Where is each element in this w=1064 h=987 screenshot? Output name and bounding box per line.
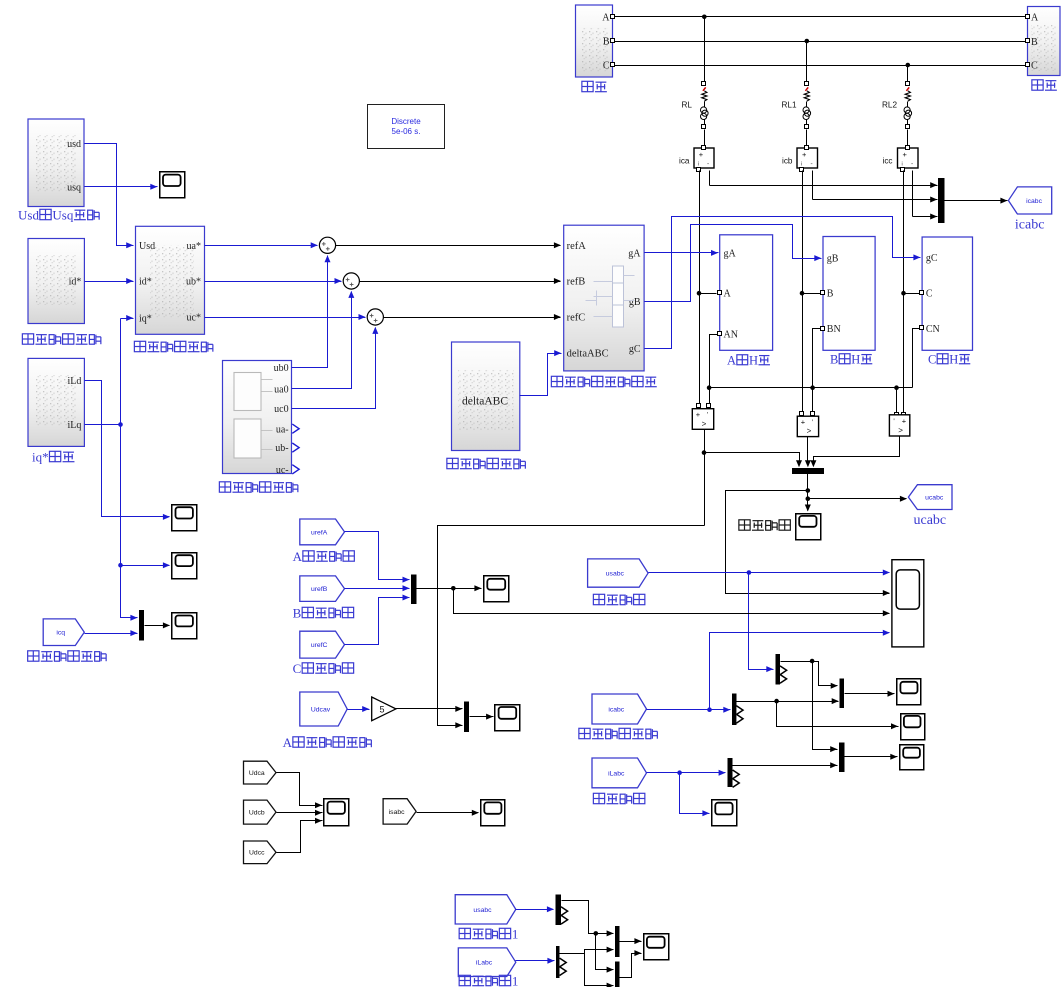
wire demuxB out (737, 698, 899, 729)
subsystem 相间电压控制 (223, 361, 292, 476)
label C相调制波 (293, 661, 354, 676)
svg-text:usabc: usabc (473, 907, 492, 914)
svg-text:H: H (949, 353, 958, 367)
wire Udcav to gain (348, 706, 370, 712)
svg-text:1: 1 (512, 974, 519, 987)
svg-text:BN: BN (827, 324, 841, 335)
sum block sum3 (367, 309, 383, 325)
subsystem 全局电压控制 (28, 239, 84, 324)
wire BN to N bus (813, 329, 821, 388)
subsystem 触发脉冲产生模块 (564, 225, 644, 371)
from tag urefA (300, 519, 345, 545)
current measurement icc (883, 146, 919, 172)
svg-text:B: B (1031, 37, 1038, 48)
port chevron uc- (292, 465, 299, 474)
from tag icabc2 (592, 694, 647, 724)
voltage measurement A (692, 409, 713, 430)
from tag urefC (300, 631, 345, 658)
wire icb- to B-phase column (800, 171, 821, 412)
svg-text:urefC: urefC (311, 642, 328, 649)
mux B (615, 962, 619, 987)
svg-text:-: - (811, 161, 813, 168)
mux ucabc (horizontal bar) (792, 468, 824, 474)
wire iLd to scope (85, 381, 170, 520)
svg-text:>: > (702, 419, 707, 428)
svg-text:refB: refB (567, 277, 586, 288)
wire CN to N bus (913, 329, 920, 388)
svg-text:deltaABC: deltaABC (462, 396, 508, 408)
goto tag ucabc (908, 485, 952, 510)
series RL branch RL (682, 17, 709, 146)
svg-text:iLabc: iLabc (476, 960, 493, 967)
wire gA to A-bridge (645, 250, 719, 256)
label Usd和Usq计算 (18, 208, 99, 223)
svg-text:B: B (293, 606, 302, 621)
wire urefB to mux (345, 585, 410, 591)
svg-text:Udcav: Udcav (311, 706, 331, 713)
from tag isabc (383, 799, 416, 824)
wire iLq trunk (85, 315, 170, 621)
svg-text:+: + (903, 150, 908, 159)
current measurement ica (679, 146, 714, 172)
wire muxB to scope10 (620, 950, 642, 977)
wire icc- to C-phase column (901, 171, 919, 413)
demux E (556, 946, 566, 978)
wire mux3 to scope3 (145, 622, 170, 628)
scope 2 (iLq) (172, 553, 197, 579)
svg-text:RL1: RL1 (782, 100, 797, 109)
series RL branch RL2 (882, 66, 912, 146)
svg-text:C: C (926, 289, 933, 300)
wire vmeasC out (810, 437, 899, 468)
svg-text:+: + (802, 150, 807, 159)
svg-text:ub*: ub* (186, 277, 201, 288)
svg-text:isabc: isabc (389, 809, 405, 816)
svg-text:Udcb: Udcb (249, 810, 265, 817)
scope 10 (644, 934, 669, 960)
svg-text:uc*: uc* (187, 313, 201, 324)
wire ica- to A-phase column (697, 171, 717, 404)
vmeas C port squares (895, 413, 906, 417)
scope 1 (iLd) (172, 505, 197, 531)
svg-text:icb: icb (782, 157, 793, 166)
svg-text:uc0: uc0 (274, 404, 288, 415)
svg-text:usabc: usabc (606, 570, 625, 577)
svg-text:A: A (283, 735, 293, 750)
svg-text:C: C (603, 61, 610, 72)
subsystem C相H桥 (920, 237, 973, 350)
scope 8 (712, 800, 737, 826)
demux D (555, 895, 567, 926)
wire usq to scope (85, 184, 158, 190)
svg-text:Usd: Usd (18, 208, 39, 223)
svg-text:Discrete: Discrete (391, 117, 421, 126)
vmeas A port squares (697, 404, 711, 408)
label 负载 (1032, 80, 1057, 90)
wire demuxE out (560, 947, 614, 987)
wire ub* to sum2 (205, 278, 342, 284)
label 相内电压控制 (447, 458, 525, 468)
wire icb signal to mux icabc (813, 171, 938, 203)
wire id* to decoupling (85, 278, 134, 284)
svg-text:5e-06 s.: 5e-06 s. (392, 127, 421, 136)
from tag Udcc (244, 841, 277, 864)
powergui block Discrete 5e-06 s. (368, 105, 445, 149)
sum block sum1 (319, 237, 335, 253)
subsystem 电网 (grid source) (576, 5, 615, 77)
label 触发脉冲产生模块 (551, 376, 656, 386)
svg-text:icabc: icabc (1015, 218, 1045, 233)
scope 7 (901, 714, 925, 740)
svg-text:icc: icc (883, 157, 893, 166)
wire mux uref to scope4 and big scope (417, 585, 890, 616)
svg-text:C: C (1031, 60, 1038, 71)
svg-text:Usd: Usd (139, 241, 155, 252)
wire urefC to mux (345, 595, 410, 645)
subsystem 电流解耦控制 (136, 226, 205, 334)
svg-text:id*: id* (139, 277, 152, 288)
wire sum3 to refC (384, 314, 561, 320)
label A相H桥 (727, 354, 770, 368)
wire mux down to scope 输出电压 (805, 474, 811, 512)
mux icabc (938, 178, 944, 223)
svg-text:CN: CN (926, 324, 940, 335)
svg-text:urefB: urefB (311, 586, 328, 593)
wire uc* to sum3 (205, 314, 366, 320)
wire uc0 to sum3 (292, 327, 379, 409)
svg-text:ub-: ub- (275, 443, 288, 454)
svg-text:iLd: iLd (68, 376, 82, 387)
wire vmeasB out (805, 437, 811, 468)
svg-text:>: > (807, 427, 812, 436)
svg-text:gB: gB (827, 254, 839, 265)
svg-text:': ' (812, 420, 813, 427)
scope 4 (484, 576, 509, 602)
svg-text:iq*: iq* (139, 314, 152, 325)
wire gain to mux5 (396, 706, 463, 712)
wire gB to B-bridge (645, 225, 822, 302)
from tag usabc (588, 559, 649, 587)
subsystem 负载 (load) (1026, 7, 1061, 76)
wire ua* to sum1 (205, 242, 318, 248)
wire icc signal to mux icabc (913, 171, 938, 220)
svg-text:H: H (851, 353, 860, 367)
svg-text:-: - (911, 161, 913, 168)
svg-text:-: - (707, 161, 709, 168)
scope 12 (isabc) (481, 800, 505, 826)
label 输出无功电流 (28, 651, 106, 661)
svg-text:ua0: ua0 (274, 384, 288, 395)
label 全局电压控制 (22, 334, 100, 344)
N bus (707, 385, 913, 390)
port chevron ub- (292, 443, 299, 452)
wire Udcb to scope11 (277, 810, 323, 816)
label B相H桥 (830, 353, 872, 367)
svg-text:ucabc: ucabc (914, 513, 947, 528)
from tag usabc2 (455, 895, 516, 924)
label 负载电流1 (459, 974, 518, 987)
wire mux to goto icabc (945, 198, 1008, 204)
mux 3 (139, 610, 144, 640)
svg-text:>: > (898, 426, 903, 435)
wire usabc to big scope (649, 570, 890, 673)
scope 输出电压 (796, 514, 821, 540)
scope 9 (900, 745, 924, 770)
wire mux5 to scope5 (470, 714, 494, 720)
wire demuxC out (733, 762, 838, 768)
label C相H桥 (928, 353, 970, 367)
scope 5 (495, 705, 520, 731)
svg-text:ucabc: ucabc (925, 495, 944, 502)
port chevron ua- (292, 424, 299, 433)
svg-text:refC: refC (567, 313, 586, 324)
svg-text:RL: RL (682, 100, 693, 109)
wire mux to scope9 (845, 754, 898, 760)
svg-text:': ' (893, 418, 894, 425)
svg-text:deltaABC: deltaABC (567, 349, 609, 360)
wire ica signal to mux icabc (710, 171, 938, 189)
svg-text:id*: id* (69, 277, 82, 288)
from tag Udca (244, 761, 277, 784)
sum block sum2 (343, 273, 359, 289)
demux C (iLabc) (728, 758, 740, 787)
svg-text:1: 1 (512, 927, 519, 942)
label iq*计算 (32, 450, 74, 465)
voltage measurement C (889, 415, 909, 436)
svg-text:B: B (830, 353, 838, 367)
wire phase C (615, 65, 1026, 67)
label 电网电压 (593, 594, 644, 604)
series RL branch RL1 (782, 42, 811, 146)
svg-text:icq: icq (56, 630, 65, 637)
svg-text:usd: usd (67, 139, 81, 150)
wire icq to mux3 (85, 630, 138, 636)
svg-text:B: B (827, 289, 834, 300)
mux T (615, 926, 619, 957)
wire sum1 to refA (336, 242, 561, 248)
current measurement icb (782, 146, 818, 172)
svg-text:A: A (1031, 13, 1039, 24)
wire demuxD out (562, 901, 614, 973)
label 相间电压控制 (219, 482, 297, 492)
svg-text:ica: ica (679, 157, 690, 166)
svg-text:iq*: iq* (32, 450, 49, 465)
svg-text:A: A (724, 289, 732, 300)
svg-text:gB: gB (629, 297, 641, 308)
gain 5 (triangle) (372, 697, 396, 721)
from tag Udcb (244, 800, 277, 824)
svg-text:5: 5 (380, 705, 385, 715)
wire N bus to vmeasC + (896, 388, 898, 413)
wire mux to scope6 (845, 691, 895, 697)
svg-text:icabc: icabc (1026, 198, 1042, 205)
svg-text:gA: gA (628, 248, 641, 259)
svg-text:ub0: ub0 (274, 363, 289, 374)
svg-text:iLabc: iLabc (608, 770, 625, 777)
label 输出补偿电流 (579, 728, 657, 738)
svg-text:gA: gA (724, 248, 737, 259)
wire iLabc to demux/scope (647, 770, 726, 817)
subsystem 相内电压控制 (452, 342, 520, 451)
svg-text:+: + (699, 150, 704, 159)
goto tag icabc (1008, 187, 1051, 214)
junction phase A / RL (702, 14, 707, 19)
svg-text:Usq: Usq (52, 208, 73, 223)
scope 6 (897, 679, 921, 705)
wire to goto ucabc (808, 496, 907, 502)
demux A (usabc) (775, 654, 786, 685)
svg-text:gC: gC (926, 253, 938, 264)
wire to big scope input2 (726, 491, 890, 597)
svg-text:AN: AN (724, 330, 738, 341)
wire usd to Usd input (85, 144, 134, 249)
from tag icq (43, 619, 84, 646)
svg-text:B: B (603, 37, 610, 48)
wire AN to N bus (710, 335, 718, 388)
svg-text:i: i (698, 162, 699, 168)
svg-text:Udca: Udca (249, 770, 265, 777)
wire muxT to scope10 (620, 938, 642, 944)
label 电流解耦控制 (134, 341, 212, 351)
from tag Udcav (300, 692, 347, 726)
wire urefA to mux (345, 532, 410, 583)
junction phase B / RL1 (805, 39, 810, 44)
subsystem iq*计算 (28, 358, 84, 446)
scope usd (160, 172, 185, 198)
label B相调制波 (293, 606, 354, 621)
svg-text:A: A (602, 13, 610, 24)
label 电网电压1 (459, 927, 518, 942)
wire isabc to scope12 (417, 810, 479, 816)
label 输出电压 (739, 520, 790, 530)
mux uref (411, 574, 416, 604)
svg-text:gC: gC (629, 344, 641, 355)
scope 11 (Udc) (324, 799, 349, 826)
label A相调制波 (293, 549, 355, 564)
scope big (4 inputs) (892, 560, 924, 647)
wire icabc to demux/scope (647, 630, 890, 713)
svg-text:C: C (928, 353, 936, 367)
from tag iLabc2 (458, 948, 516, 977)
svg-text:iLq: iLq (68, 420, 82, 431)
svg-text:+: + (902, 416, 907, 425)
wire iLabc2 to demuxE (516, 958, 555, 964)
wire phase B (615, 41, 1026, 43)
wire Udca to scope11 (277, 773, 323, 809)
from tag iLabc (592, 758, 647, 788)
subsystem B相H桥 (821, 237, 876, 351)
wire demuxA out (781, 659, 838, 752)
wire ub0 to sum1 (292, 255, 331, 367)
wire vmeasA out trunk (438, 430, 803, 729)
demux B (icabc) (732, 694, 743, 725)
wire usabc2 to demuxD (516, 906, 554, 912)
subsystem Usd和Usq计算 (28, 119, 84, 207)
svg-text:i: i (801, 162, 802, 168)
subsystem A相H桥 (718, 235, 773, 350)
svg-text:+: + (696, 410, 701, 419)
svg-text:C: C (293, 661, 302, 676)
wire phase A (615, 16, 1026, 18)
svg-text:Udcc: Udcc (249, 850, 265, 857)
wire N bus to vmeasA - (709, 388, 711, 404)
wire deltaABC to pulse module (520, 350, 562, 395)
svg-text:': ' (707, 412, 708, 419)
label ucabc (914, 513, 947, 528)
wire ua0 to sum2 (292, 291, 355, 389)
wire Udcc to scope11 (277, 818, 323, 853)
svg-text:usq: usq (67, 182, 81, 193)
mux upper right (840, 678, 844, 708)
svg-text:ua*: ua* (187, 241, 201, 252)
label A相直流侧电压 (283, 735, 372, 750)
vmeas B port squares (800, 412, 815, 416)
svg-text:refA: refA (567, 241, 587, 252)
wire gC to C-bridge (645, 217, 921, 349)
scope 3 (icq compare) (172, 613, 197, 639)
svg-text:urefA: urefA (311, 529, 328, 536)
wire N bus to vmeasB - (812, 388, 814, 412)
svg-text:RL2: RL2 (882, 100, 897, 109)
svg-text:+: + (801, 418, 806, 427)
label icabc (1015, 218, 1045, 233)
svg-text:i: i (902, 162, 903, 168)
junction phase C / RL2 (906, 63, 911, 68)
svg-text:ua-: ua- (276, 424, 289, 435)
mux 5 (464, 702, 469, 732)
voltage measurement B (797, 416, 818, 436)
svg-text:H: H (749, 354, 758, 368)
mux lower right (839, 742, 844, 772)
label 电网 (582, 81, 607, 91)
svg-text:A: A (293, 549, 303, 564)
svg-text:icabc: icabc (608, 706, 624, 713)
label 负载电流 (593, 793, 644, 803)
from tag urefB (300, 576, 345, 602)
svg-text:A: A (727, 354, 736, 368)
svg-text:uc-: uc- (276, 465, 289, 476)
wire sum2 to refB (360, 278, 561, 284)
